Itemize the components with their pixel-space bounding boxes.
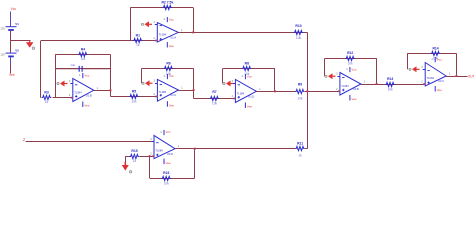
svg-text:Vcc: Vcc bbox=[351, 67, 357, 71]
svg-text:R1: R1 bbox=[136, 33, 140, 37]
svg-text:Vee: Vee bbox=[166, 161, 172, 165]
svg-text:U1:D: U1:D bbox=[248, 94, 254, 98]
resistor R13 bbox=[385, 77, 395, 91]
junction U2C output bbox=[455, 75, 457, 77]
svg-text:R15: R15 bbox=[131, 149, 137, 153]
resistor R1 bbox=[133, 33, 143, 47]
wire U2A feedback left vertical bbox=[130, 8, 132, 41]
resistor R11 bbox=[295, 142, 305, 158]
junction U1C output bbox=[193, 89, 195, 91]
wire R11 to vertical bbox=[305, 148, 307, 150]
svg-text:U2:C: U2:C bbox=[438, 79, 444, 83]
svg-text:Vcc: Vcc bbox=[437, 57, 443, 61]
junction U1D output bbox=[274, 90, 276, 92]
svg-text:1: 1 bbox=[97, 87, 99, 90]
junction U1B output bbox=[110, 89, 112, 91]
wire R3 to U1B input bbox=[53, 97, 73, 99]
svg-text:2: 2 bbox=[336, 88, 338, 91]
svg-text:V1: V1 bbox=[15, 22, 19, 26]
svg-text:Vcc: Vcc bbox=[169, 17, 175, 21]
wire U2A output bbox=[178, 32, 193, 34]
svg-text:Vcc: Vcc bbox=[166, 130, 172, 134]
resistor R14 feedback bbox=[431, 46, 441, 60]
wire R15 to U2D input bbox=[140, 156, 155, 158]
svg-text:R10: R10 bbox=[295, 24, 301, 28]
svg-text:2: 2 bbox=[69, 94, 71, 97]
svg-text:3: 3 bbox=[154, 80, 156, 83]
svg-text:2: 2 bbox=[421, 81, 423, 84]
op-amp U2:B bbox=[336, 67, 366, 101]
wire U2C output bbox=[446, 76, 456, 78]
wire U2D feedback right vertical bbox=[194, 149, 196, 178]
wire U2B feedback right vertical bbox=[376, 58, 378, 84]
wire U2D output to R11 bbox=[195, 148, 295, 150]
svg-text:TL084: TL084 bbox=[159, 90, 167, 94]
svg-text:1: 1 bbox=[181, 29, 183, 32]
wire U2D feedback bottom bbox=[150, 178, 195, 180]
svg-text:R13: R13 bbox=[387, 77, 393, 81]
svg-text:Vee: Vee bbox=[84, 104, 90, 108]
svg-text:R5: R5 bbox=[132, 89, 136, 93]
svg-text:1uF: 1uF bbox=[70, 63, 75, 67]
wire supply rail top bbox=[10, 12, 12, 27]
wire U2B output to R13 bbox=[377, 84, 426, 86]
resistor R5 bbox=[129, 89, 139, 103]
svg-text:10k: 10k bbox=[388, 87, 394, 91]
svg-text:TL084: TL084 bbox=[159, 32, 167, 36]
svg-text:1: 1 bbox=[181, 87, 183, 90]
wire U1D output bbox=[256, 91, 275, 93]
wire U1D feedback top bbox=[223, 68, 276, 70]
resistor R10 bbox=[294, 24, 304, 40]
wire integrator feedback R top bbox=[55, 54, 110, 56]
svg-text:U1:B: U1:B bbox=[86, 93, 92, 97]
svg-text:4: 4 bbox=[164, 18, 166, 21]
wire U1C feedback left vertical bbox=[141, 68, 143, 83]
battery V2 bbox=[0, 48, 19, 56]
svg-text:V2: V2 bbox=[15, 48, 19, 52]
svg-text:R2 7.5k: R2 7.5k bbox=[161, 0, 173, 4]
svg-text:2: 2 bbox=[150, 153, 152, 156]
svg-text:1k: 1k bbox=[136, 43, 140, 47]
svg-text:4: 4 bbox=[346, 68, 348, 71]
wire U1C feedback right vertical bbox=[193, 68, 195, 98]
wire node to V2 bbox=[10, 41, 12, 53]
svg-text:R14: R14 bbox=[432, 46, 438, 50]
svg-text:2: 2 bbox=[154, 93, 156, 96]
ground flag at U2A noninverting input bbox=[141, 21, 152, 27]
resistor R9 summing input bbox=[295, 82, 305, 100]
wire U2D feedback left vertical bbox=[149, 156, 151, 178]
svg-text:3: 3 bbox=[150, 138, 152, 141]
svg-text:3: 3 bbox=[69, 80, 71, 83]
resistor R15 bbox=[130, 149, 140, 163]
junction summing node bbox=[306, 90, 308, 92]
svg-text:2: 2 bbox=[22, 137, 26, 142]
svg-text:TL084: TL084 bbox=[74, 90, 82, 94]
svg-text:1k: 1k bbox=[45, 100, 49, 104]
wire ground to R15 bbox=[125, 156, 130, 158]
wire U1C output to R7 bbox=[194, 98, 236, 100]
op-amp U2:D bbox=[150, 130, 180, 165]
svg-text:TL084: TL084 bbox=[341, 84, 349, 88]
svg-text:R11: R11 bbox=[297, 142, 303, 146]
svg-text:TL084: TL084 bbox=[155, 149, 163, 153]
wire U2B feedback top bbox=[325, 58, 377, 60]
wire supply rail bottom 2 bbox=[10, 64, 12, 74]
svg-text:10k: 10k bbox=[296, 36, 302, 40]
svg-text:R9: R9 bbox=[298, 82, 302, 86]
svg-text:Vcc: Vcc bbox=[84, 73, 90, 77]
svg-text:U1:C: U1:C bbox=[170, 93, 176, 97]
ground flag at U2B noninverting input bbox=[325, 73, 336, 79]
svg-text:3: 3 bbox=[154, 21, 156, 24]
svg-text:Vcc: Vcc bbox=[247, 74, 253, 78]
svg-text:Vee: Vee bbox=[169, 44, 175, 48]
svg-text:OUT: OUT bbox=[468, 74, 474, 78]
svg-text:3: 3 bbox=[421, 66, 423, 69]
svg-text:R6: R6 bbox=[166, 61, 170, 65]
resistor R3 integrator input bbox=[42, 91, 52, 104]
svg-text:Vee: Vee bbox=[169, 103, 175, 107]
wire input long horizontal bbox=[26, 141, 155, 143]
wire U2D output bbox=[175, 148, 195, 150]
wire supply rail bottom bbox=[10, 57, 12, 64]
resistor R16 feedback bbox=[161, 171, 171, 185]
svg-text:12V: 12V bbox=[0, 53, 5, 57]
wire U1C feedback top bbox=[142, 68, 194, 70]
svg-text:Vee: Vee bbox=[247, 105, 253, 109]
wire ground branch vertical bbox=[125, 156, 127, 162]
op-amp U2:C bbox=[421, 57, 451, 92]
ground flag at U2C noninverting input bbox=[409, 66, 420, 72]
ground flag bottom bbox=[122, 162, 132, 173]
wire U2A feedback top bbox=[130, 7, 193, 9]
junction U2D output bbox=[194, 148, 196, 150]
svg-text:TL084: TL084 bbox=[237, 91, 245, 95]
svg-text:4: 4 bbox=[79, 74, 81, 77]
op-amp U1:B bbox=[69, 73, 99, 108]
svg-text:1k: 1k bbox=[133, 159, 137, 163]
wire U1B output vertical bbox=[110, 55, 112, 97]
wire node Y horizontal bbox=[41, 40, 157, 42]
svg-text:10k: 10k bbox=[164, 181, 170, 185]
svg-text:10k: 10k bbox=[297, 97, 303, 101]
svg-text:10k: 10k bbox=[131, 100, 137, 104]
wire U1D feedback left vertical bbox=[222, 69, 224, 84]
resistor R4 integrator feedback bbox=[78, 48, 88, 61]
wire U2C output to OUT bbox=[456, 76, 467, 78]
wire R10 down long vertical bbox=[307, 32, 309, 148]
svg-text:4: 4 bbox=[160, 131, 162, 134]
ground flag at supply midpoint bbox=[26, 41, 35, 49]
junction U2D inverting input bbox=[149, 155, 151, 157]
svg-text:10k: 10k bbox=[212, 102, 218, 106]
resistor R2 7.5k feedback bbox=[161, 0, 173, 9]
wire U2C feedback left vertical bbox=[407, 53, 409, 69]
svg-text:1: 1 bbox=[259, 88, 261, 91]
svg-text:U2:D: U2:D bbox=[167, 152, 173, 156]
svg-text:R12: R12 bbox=[347, 51, 353, 55]
svg-text:2: 2 bbox=[232, 95, 234, 98]
svg-text:U2:A: U2:A bbox=[170, 36, 176, 40]
wire U1B output to R5 bbox=[111, 96, 158, 98]
svg-text:1k: 1k bbox=[298, 154, 302, 158]
svg-text:R8: R8 bbox=[245, 62, 249, 66]
op-amp U2:A bbox=[154, 17, 184, 48]
svg-text:3: 3 bbox=[232, 80, 234, 83]
wire U2B feedback left vertical bbox=[324, 58, 326, 76]
svg-text:R3: R3 bbox=[44, 91, 48, 95]
wire supply midpoint stub bbox=[11, 40, 31, 42]
op-amp U1:D bbox=[232, 74, 262, 109]
svg-text:R4: R4 bbox=[81, 48, 85, 52]
svg-text:12V: 12V bbox=[0, 26, 5, 30]
svg-text:1: 1 bbox=[178, 145, 180, 148]
svg-text:3: 3 bbox=[336, 73, 338, 76]
svg-text:10k: 10k bbox=[348, 61, 354, 65]
svg-text:R16: R16 bbox=[163, 171, 169, 175]
wire U1D feedback right vertical bbox=[274, 69, 276, 92]
battery V1 bbox=[0, 22, 19, 30]
capacitor C1 bbox=[55, 63, 110, 72]
svg-text:TL084: TL084 bbox=[427, 76, 435, 80]
ground flag at U1C noninverting input bbox=[142, 80, 153, 86]
svg-text:1: 1 bbox=[364, 81, 366, 84]
svg-text:Vee: Vee bbox=[351, 97, 357, 101]
wire U1B output bbox=[94, 90, 111, 92]
svg-text:1M: 1M bbox=[81, 57, 86, 61]
wire V1 to node bbox=[10, 31, 12, 41]
junction U2A output node bbox=[192, 31, 194, 33]
wire U2A feedback right vertical bbox=[193, 8, 195, 33]
svg-text:Vee: Vee bbox=[9, 73, 15, 77]
wire U1C output bbox=[178, 90, 193, 92]
svg-text:R7: R7 bbox=[212, 90, 216, 94]
resistor R8 feedback bbox=[242, 62, 252, 76]
wire integrator feedback C branch bbox=[55, 68, 110, 70]
wire integrator feedback left vertical bbox=[55, 55, 57, 98]
junction U2B output bbox=[376, 83, 378, 85]
wire R9 to summing node bbox=[305, 91, 340, 93]
wire node Y down to integrator input bbox=[40, 41, 42, 98]
ground flag at U1B noninverting input bbox=[57, 81, 68, 87]
resistor R7 bbox=[210, 90, 220, 106]
svg-text:U2:B: U2:B bbox=[353, 87, 359, 91]
svg-text:Vcc: Vcc bbox=[169, 74, 175, 78]
wire U2C feedback top bbox=[407, 53, 456, 55]
wire U2B output bbox=[361, 84, 377, 86]
svg-text:2: 2 bbox=[154, 37, 156, 40]
svg-text:1: 1 bbox=[449, 73, 451, 76]
svg-text:Vcc: Vcc bbox=[11, 7, 17, 11]
wire U2A output to R10 bbox=[193, 32, 307, 34]
resistor R12 feedback bbox=[345, 51, 355, 65]
wire U2C feedback right vertical bbox=[456, 53, 458, 76]
ground flag at U1D noninverting input bbox=[223, 81, 234, 87]
svg-text:Vee: Vee bbox=[437, 88, 443, 92]
op-amp U1:C bbox=[154, 74, 184, 108]
wire U1D output to R9 bbox=[275, 91, 295, 93]
resistor R6 feedback bbox=[164, 61, 174, 75]
